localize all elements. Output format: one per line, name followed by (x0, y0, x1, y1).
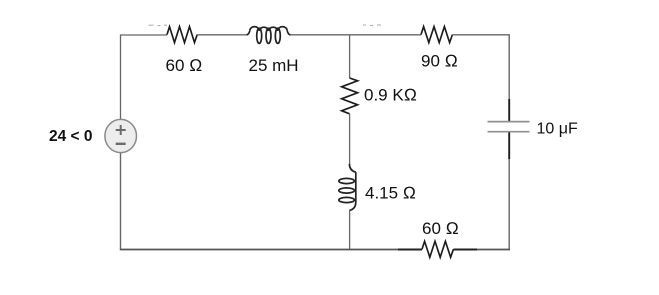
resistor R1 60 ohm (top left) (167, 27, 197, 43)
capacitor C1 plates (488, 122, 530, 132)
svg-text:0.9 KΩ: 0.9 KΩ (364, 85, 417, 104)
wire bottom right segment (477, 249, 510, 251)
inductor L1 25 mH (246, 27, 290, 44)
voltage source V1 circle (105, 119, 137, 152)
svg-text:10 μF: 10 μF (537, 120, 578, 137)
wire bottom left segment (120, 249, 398, 251)
voltage source plus sign (116, 125, 126, 135)
node A junction to 90 ohm resistor wire (350, 34, 421, 36)
wire right side upper (508, 34, 510, 121)
svg-text:24 < 0: 24 < 0 (49, 128, 93, 145)
voltage source minus sign (116, 143, 126, 145)
svg-text:60 Ω: 60 Ω (422, 219, 459, 238)
capacitor lead darker segments (508, 99, 510, 159)
resistor R4 60 ohm (bottom) (422, 241, 453, 257)
svg-text:4.15 Ω: 4.15 Ω (365, 184, 416, 203)
svg-text:25 mH: 25 mH (249, 56, 299, 75)
wire left side lower (120, 152, 122, 249)
svg-text:90 Ω: 90 Ω (421, 52, 458, 71)
inductor L2 4.15 ohm (middle vertical coil) (339, 164, 356, 211)
faint leftover mark middle (363, 24, 381, 27)
wire R2 to top right corner (452, 34, 509, 36)
resistor R3 0.9 Kohm (middle vertical) (342, 78, 358, 114)
wire right side lower (508, 132, 510, 249)
wire between R3 and L2 (349, 114, 351, 164)
wire top left segment (121, 35, 168, 120)
wire middle branch upper (349, 35, 351, 78)
resistor R2 90 ohm (top right) (421, 27, 452, 43)
dark lead stub right of R4 (453, 249, 477, 251)
faint leftover mark left (149, 24, 168, 26)
wire L1 to node A (291, 34, 350, 36)
dark lead stub left of R4 (398, 249, 422, 251)
wire middle branch lower (349, 211, 351, 250)
wire between R1 and L1 (197, 34, 246, 36)
svg-text:60 Ω: 60 Ω (166, 56, 203, 75)
